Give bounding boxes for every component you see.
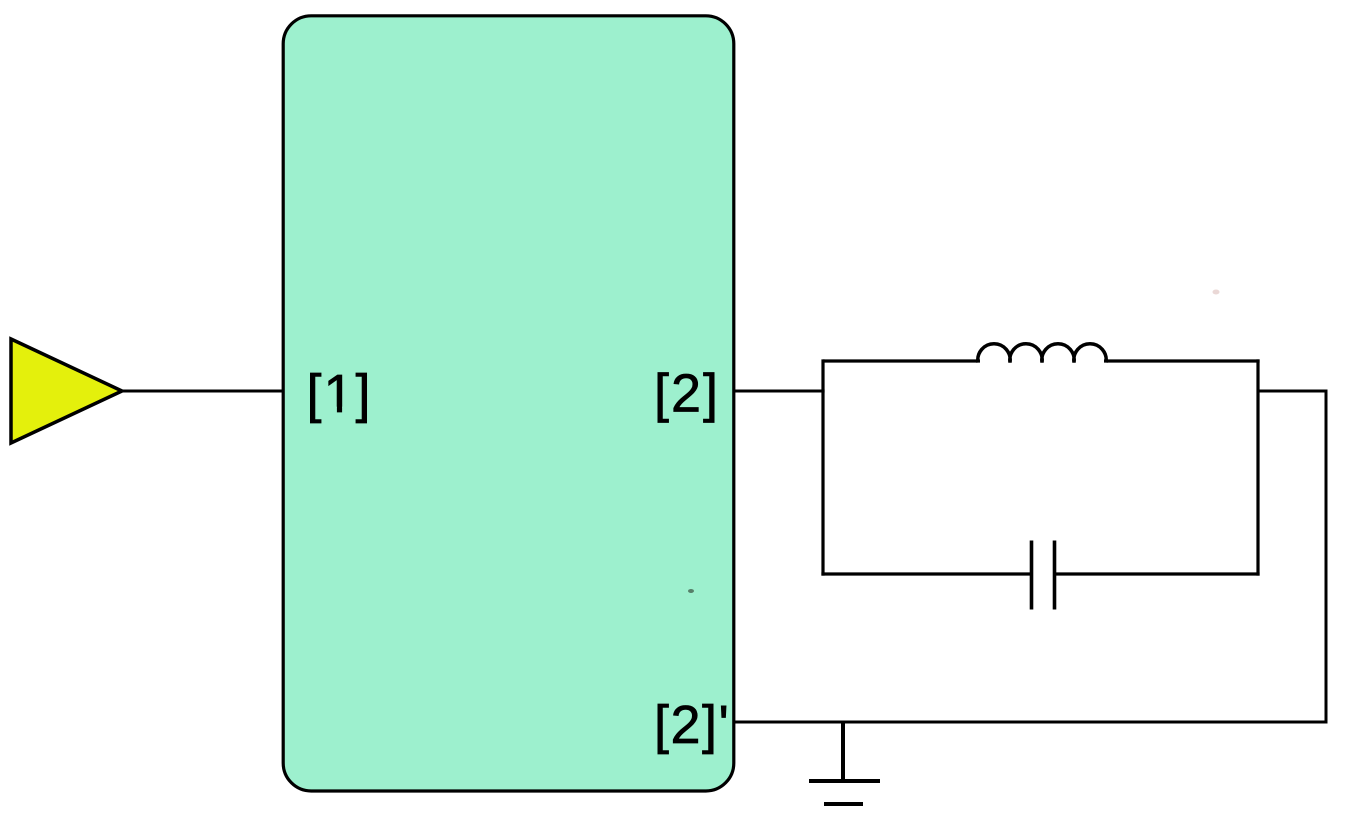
wire source to port [1]: [122, 390, 284, 393]
stray mark inside box: [688, 589, 694, 593]
capacitor C1 left plate: [1030, 541, 1034, 610]
ground stem: [841, 722, 845, 782]
tank right vertical wire: [1256, 359, 1259, 575]
source triangle (signal source): [11, 339, 122, 443]
right rail vertical wire: [1325, 390, 1328, 724]
tank bottom-left wire: [821, 572, 1031, 575]
tank bottom-right wire: [1055, 572, 1260, 575]
tank top-right wire: [1104, 359, 1260, 362]
ground bar 2: [824, 802, 863, 806]
tank left vertical wire: [821, 359, 824, 575]
capacitor C1 right plate: [1053, 541, 1057, 610]
faint speck top right: [1213, 290, 1220, 295]
tank top-left wire: [823, 359, 980, 362]
wire port [2] to tank node A: [733, 390, 825, 393]
svg-text:[2]: [2]: [654, 364, 720, 424]
inductor L1: [978, 344, 1106, 363]
wire tank output to right rail: [1258, 390, 1328, 393]
svg-text:[2]': [2]': [654, 695, 730, 755]
ground bar 1: [809, 779, 880, 783]
two-port network box U1: [283, 16, 734, 791]
bottom return wire to port [2]': [733, 721, 1328, 724]
svg-text:[1]: [1]: [307, 364, 373, 424]
